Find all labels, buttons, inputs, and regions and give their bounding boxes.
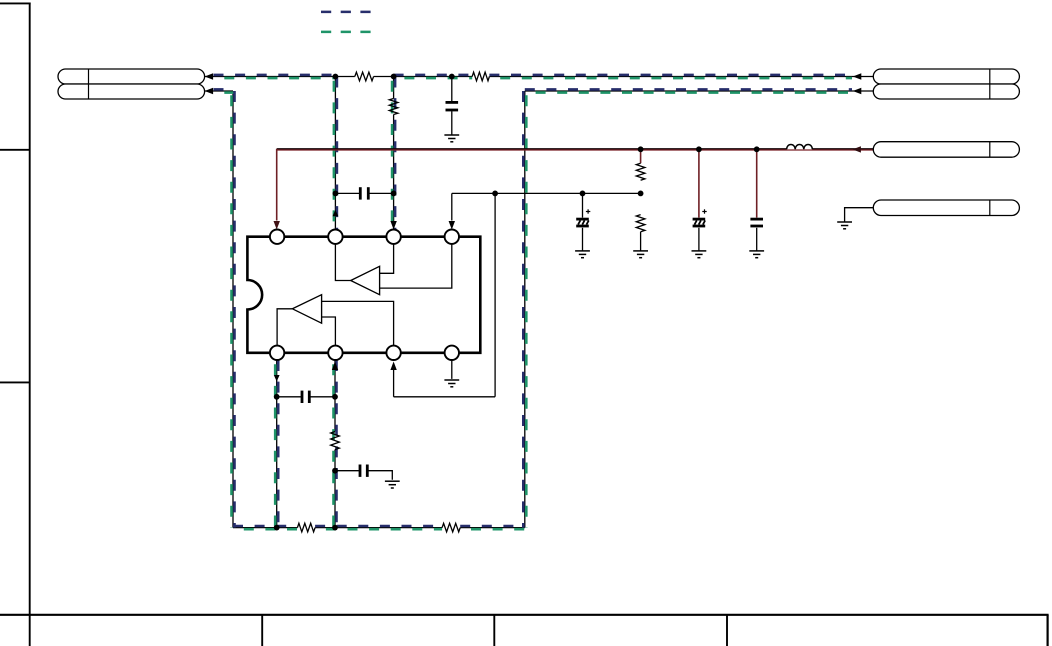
wire R5 lower lead <box>640 232 642 251</box>
junction red / C5 <box>754 146 760 152</box>
capacitor C5 <box>750 219 763 226</box>
capacitor C7 (series to ground) <box>360 465 367 477</box>
resistor R1 (top bus, series) <box>355 72 374 81</box>
U1 pin 3 (top) <box>386 230 400 244</box>
wire loop riser to pin7 <box>393 369 395 397</box>
junction at pin3 column / C2 <box>391 191 397 197</box>
net1 blue/green highlight: pill CN1 to node at x=335 <box>214 75 336 78</box>
capacitor C2 (series, between pin2 and pin3 columns) <box>360 187 368 199</box>
wire pin2 column <box>334 77 336 230</box>
net highlight: R2 right terminal to right pill CN3 <box>489 75 852 78</box>
connector CN6 (right, grounded) <box>873 200 1019 216</box>
wire pin3 column lower <box>393 115 395 230</box>
ground at R5 <box>633 251 648 258</box>
net2 highlight: corner to right pill CN4 <box>525 89 852 92</box>
wire net2 bottom bus (corner to R7) <box>233 527 297 529</box>
wire net2 bottom bus (R8 to corner) <box>460 527 525 529</box>
net2 highlight: right leg up <box>523 91 526 528</box>
wire VCC red horizontal (black top edge, after L1) <box>812 148 873 150</box>
arrow into CN4 <box>853 88 862 94</box>
U1 pin 7 (bottom) <box>386 346 400 360</box>
arrow into pin4 <box>449 221 455 230</box>
pin6 column highlight <box>334 360 337 528</box>
arrow into pin6 <box>332 362 338 371</box>
wire net1 top bus (left pill to R1) <box>205 76 355 78</box>
junction bus / pin5 column <box>274 525 280 531</box>
resistor R5 (node to ground) <box>636 215 645 232</box>
wire VCC red horizontal (black top edge) <box>277 148 787 150</box>
arrow into CN2 <box>205 88 214 94</box>
net2 highlight: left leg down <box>232 91 235 528</box>
arrow into pin7 <box>390 362 396 371</box>
wire C3 upper lead <box>582 193 584 217</box>
wire pin4 riser <box>451 193 453 220</box>
U1 pin 2 (top) <box>328 230 342 244</box>
pin2 column highlight <box>334 77 337 230</box>
wire red stub to C4 <box>698 149 700 217</box>
op-amp U1A (upper, pointing left) <box>351 266 380 294</box>
wire C1 upper lead <box>451 77 453 102</box>
wire loop vertical x=495 <box>494 193 496 396</box>
resistor R8 (bottom bus, series) <box>442 523 460 532</box>
wire net1 top bus (R1 to R2) <box>374 76 473 78</box>
junction W2 / C3 <box>580 191 586 197</box>
U1A wire feedback to pin4 <box>380 244 452 288</box>
connector CN1 (left, pin A) <box>58 69 205 84</box>
U1 pin 8 (bottom) <box>445 346 459 360</box>
wire red stub to C5 <box>756 149 758 217</box>
U1 pin 5 (bottom) <box>270 346 284 360</box>
wire C3 lower lead <box>582 228 584 251</box>
op-amp IC U1 body <box>247 237 480 353</box>
net highlight: node x=393 to R2 left terminal <box>394 75 473 78</box>
ground at C4 <box>692 251 707 258</box>
arrow into pin1 <box>274 221 280 230</box>
U1 pin 1 (top) <box>270 230 284 244</box>
wire net2 left vertical <box>232 91 234 528</box>
arrow into pin3 <box>390 221 396 230</box>
net2 highlight: R8 to corner <box>460 526 525 529</box>
wire C5 lower lead <box>756 228 758 251</box>
wire net2 bottom bus (R7 to R8) <box>315 527 442 529</box>
capacitor C6 (series, pin5-pin6 columns) <box>302 391 309 403</box>
resistor R3 (pin3 column, series) <box>389 99 398 115</box>
wire pin5 column <box>276 360 278 528</box>
U1 pin 6 (bottom) <box>328 346 342 360</box>
wire C7 right lead then down <box>368 471 392 480</box>
connector CN3 (right top, pin A) <box>873 69 1019 84</box>
capacitor C1 (top bus to ground) <box>446 102 459 110</box>
U1B wire input to pin7 <box>322 301 394 345</box>
ground at C3 <box>575 251 590 258</box>
wire C2 left lead <box>335 192 359 194</box>
arrow into right pill CN5 <box>852 146 861 152</box>
wire VCC red horizontal <box>277 149 874 151</box>
junction top bus / C1 <box>449 74 455 80</box>
wire C7 left lead <box>335 470 359 472</box>
inductor L1 <box>787 144 813 149</box>
wire C6 right lead <box>310 396 335 398</box>
wire pin8 to ground <box>451 360 453 379</box>
wire C6 left lead <box>277 396 301 398</box>
junction red / C4 <box>696 146 702 152</box>
junction pin6 column / C7 <box>332 468 338 474</box>
resistor R4 (red rail to node) <box>636 163 645 180</box>
ground at C5 <box>749 251 764 258</box>
net2 highlight: pill to corner <box>214 89 235 92</box>
U1A wire pin2 to output <box>335 244 350 281</box>
wire W2 east run (pin4 corner to R4 node) <box>452 192 641 194</box>
wire VCC red vertical to pin1 <box>276 149 278 221</box>
legend: blue net-highlight dashed line sample <box>321 11 371 14</box>
wire pin3 column upper <box>393 77 395 99</box>
junction bus / pin6 column <box>332 525 338 531</box>
connector CN2 (left, pin B) <box>58 84 205 99</box>
connector CN4 (right top, pin B) <box>873 84 1019 99</box>
capacitor C3 (polarized) <box>576 209 590 226</box>
ground at pin8 <box>444 380 459 387</box>
wire net2 (to right pill CN4) <box>525 90 874 92</box>
ground at C1 <box>444 135 459 142</box>
wire pin6 column upper <box>334 360 336 432</box>
wire C4 lower lead <box>698 228 700 251</box>
junction W2 / R4-R5 node <box>638 191 644 197</box>
ground at CN6 <box>837 222 852 229</box>
resistor R2 (top bus, series) <box>472 72 489 81</box>
junction W2 / loop wire <box>492 191 498 197</box>
U1A wire pin3 to inverting input <box>380 244 394 273</box>
wire net1 top bus (R2 to right pill) <box>489 76 873 78</box>
U1B wire output to pin5 <box>277 309 292 346</box>
resistor R7 (bottom bus, series) <box>297 523 315 532</box>
junction pin5 column / C6 <box>274 394 280 400</box>
junction top bus / pin2 column <box>333 74 339 80</box>
arrow on pin2 column pointing up <box>333 210 339 217</box>
wire net2 (left pill CN2 lead) <box>205 90 233 92</box>
junction red / R4 <box>638 146 644 152</box>
wire pin6 column lower <box>334 450 336 528</box>
wire net2 right vertical <box>524 91 526 528</box>
wire loop horizontal y=397 <box>394 396 496 398</box>
junction top bus / pin3 column <box>391 74 397 80</box>
resistor R6 (pin6 column, series) <box>331 432 340 450</box>
U1 pin 4 (top) <box>445 230 459 244</box>
pin5 column highlight <box>275 360 278 528</box>
ground at C7 <box>385 481 400 488</box>
wire red stub to R4 <box>640 149 642 163</box>
net2 highlight: corner to R7 <box>233 526 297 529</box>
capacitor C4 (polarized) <box>693 209 707 226</box>
pin3 column highlight <box>392 77 395 230</box>
arrow into CN3 <box>853 73 862 79</box>
junction at pin2 column / C2 <box>333 191 339 197</box>
wire C2 right lead <box>369 192 393 194</box>
legend: green net-highlight dashed line sample <box>321 31 371 34</box>
op-amp U1B (lower, pointing left) <box>292 295 321 324</box>
arrow on pin5 column pointing down <box>274 375 280 382</box>
U1B wire input to pin6 <box>322 317 336 346</box>
net2 highlight: bus between R7 and R8 <box>315 526 442 529</box>
junction pin6 column / C6 <box>332 394 338 400</box>
wire CN6 to ground <box>845 208 874 222</box>
arrow into CN1 <box>205 73 214 79</box>
wire C1 lower lead <box>451 111 453 135</box>
connector CN5 (right, red net) <box>873 142 1019 158</box>
